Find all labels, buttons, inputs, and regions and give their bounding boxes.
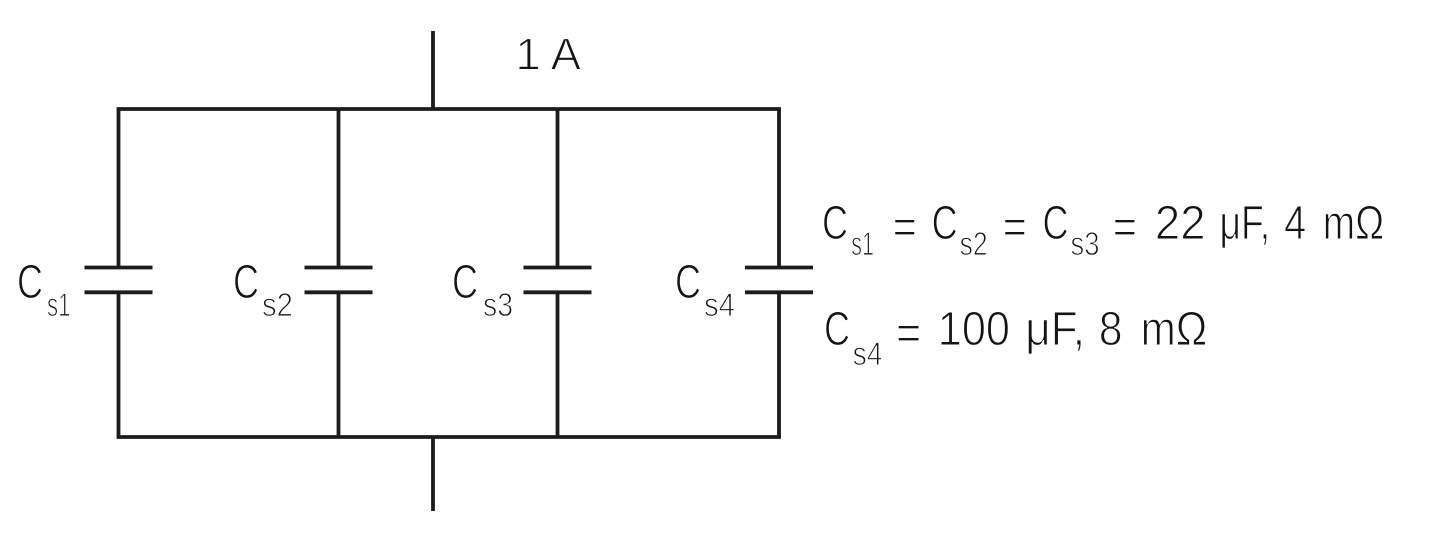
svg-text:s1: s1 <box>851 225 874 262</box>
svg-text:s4: s4 <box>853 335 883 372</box>
wire bottom rail (node bottom) <box>117 435 781 439</box>
capacitor Cs3 plates <box>524 266 592 270</box>
label Cs3 <box>452 256 513 323</box>
svg-text:s2: s2 <box>262 286 293 323</box>
wire bottom current return <box>431 437 435 511</box>
wire branch 2 lower <box>337 292 341 437</box>
wire branch 3 lower <box>556 292 560 437</box>
wire top current feed <box>431 31 435 109</box>
wire top rail (node top) <box>117 107 781 111</box>
svg-text:1 A: 1 A <box>516 29 582 80</box>
svg-text:C: C <box>824 303 850 356</box>
svg-text:C: C <box>1043 197 1069 250</box>
label Cs2 <box>233 256 293 323</box>
svg-text:C: C <box>17 256 43 309</box>
wire branch 1 upper <box>117 109 121 268</box>
wire branch 2 upper <box>337 109 341 268</box>
annotation line 2: Cs4 = 100 uF, 8 mOhm <box>824 303 1207 372</box>
svg-text:C: C <box>452 256 478 309</box>
capacitor Cs4 plates <box>745 266 813 270</box>
capacitor Cs2 plates <box>305 266 373 270</box>
label Cs1 <box>17 256 71 323</box>
svg-text:s3: s3 <box>1071 225 1100 262</box>
annotation line 1: Cs1 = Cs2 = Cs3 = 22 uF, 4 mOhm <box>822 197 1384 262</box>
svg-text:C: C <box>822 197 848 250</box>
svg-text:μF,: μF, <box>1220 197 1271 250</box>
wire branch 1 lower <box>117 292 121 437</box>
svg-text:μF,: μF, <box>1025 303 1085 356</box>
svg-text:=: = <box>1003 201 1027 254</box>
svg-text:8: 8 <box>1099 303 1123 356</box>
svg-text:s1: s1 <box>47 286 71 323</box>
label Cs4 <box>675 256 735 323</box>
svg-text:=: = <box>893 201 917 254</box>
svg-text:s2: s2 <box>960 225 988 262</box>
svg-text:C: C <box>675 256 701 309</box>
svg-text:100: 100 <box>938 303 1010 356</box>
wire branch 4 upper <box>777 109 781 268</box>
svg-text:mΩ: mΩ <box>1323 197 1384 250</box>
svg-text:=: = <box>1113 201 1137 254</box>
svg-text:s3: s3 <box>483 286 513 323</box>
svg-text:mΩ: mΩ <box>1141 303 1208 356</box>
wire branch 4 lower <box>777 292 781 437</box>
svg-text:C: C <box>932 197 958 250</box>
wire branch 3 upper <box>556 109 560 268</box>
capacitor Cs1 plates <box>85 266 153 270</box>
svg-text:22: 22 <box>1155 197 1206 250</box>
svg-text:C: C <box>233 256 259 309</box>
svg-text:s4: s4 <box>704 286 735 323</box>
svg-text:4: 4 <box>1284 197 1306 250</box>
svg-text:=: = <box>896 307 921 360</box>
